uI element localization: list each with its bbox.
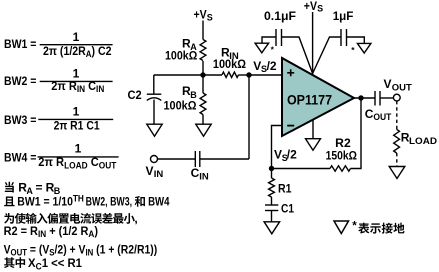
node B junction bbox=[246, 72, 251, 77]
label RLOAD bbox=[401, 131, 438, 147]
ground op-amp V- bbox=[306, 139, 321, 151]
wire op-amp output bbox=[354, 97, 375, 99]
label VOUT bbox=[384, 77, 413, 92]
note line 4 bbox=[4, 224, 98, 239]
svg-text:C1: C1 bbox=[281, 202, 294, 216]
wire 0.1uF to ground bbox=[262, 37, 276, 43]
terminal VOUT bbox=[393, 94, 400, 101]
svg-text:IN: IN bbox=[199, 172, 209, 182]
wire node B down to CIN bbox=[248, 75, 250, 159]
svg-text:1μF: 1μF bbox=[333, 9, 354, 23]
label COUT bbox=[365, 107, 392, 122]
wire node B to op-amp + bbox=[249, 74, 282, 76]
note line 2 bbox=[4, 194, 170, 209]
svg-text:150kΩ: 150kΩ bbox=[326, 148, 358, 162]
resistor RLOAD bbox=[394, 129, 400, 153]
capacitor 0.1uF bbox=[276, 29, 282, 46]
node output junction bbox=[358, 95, 363, 100]
resistor R1 bbox=[269, 178, 275, 197]
wire output to R2 (vertical) bbox=[351, 98, 362, 169]
wire 0.1uF to V+ bbox=[282, 37, 313, 74]
svg-text:LOAD: LOAD bbox=[409, 136, 438, 146]
svg-text:100kΩ: 100kΩ bbox=[165, 49, 198, 63]
footnote text bbox=[352, 221, 404, 234]
capacitor C1 bbox=[265, 205, 278, 211]
terminal VIN bbox=[151, 156, 158, 163]
note line 3 bbox=[4, 212, 138, 226]
formula BW3 bbox=[4, 105, 113, 133]
label VIN bbox=[146, 164, 164, 179]
ground 0.1uF bbox=[255, 43, 269, 53]
resistor RA bbox=[200, 40, 206, 61]
label CIN bbox=[191, 166, 209, 181]
svg-text:,: , bbox=[134, 212, 137, 226]
label RA bbox=[182, 36, 197, 52]
wire 1uF to ground bbox=[347, 37, 365, 43]
label VS/2 bottom bbox=[274, 148, 297, 163]
formula BW2 bbox=[4, 66, 113, 94]
svg-text:S: S bbox=[317, 4, 323, 14]
svg-text:1: 1 bbox=[73, 105, 80, 119]
supply +VS label (left) bbox=[194, 8, 213, 23]
wire op-amp V- to ground bbox=[312, 120, 314, 139]
svg-text:2π (1/2RA) C2: 2π (1/2RA) C2 bbox=[43, 44, 112, 59]
svg-text:BW1 = 1/10: BW1 = 1/10 bbox=[17, 195, 73, 209]
wire R1 to C1 bbox=[271, 197, 273, 205]
svg-text:S: S bbox=[207, 13, 213, 23]
svg-text:BW1 =: BW1 = bbox=[4, 37, 36, 51]
ground below RB bbox=[196, 124, 211, 136]
svg-text:BW4 =: BW4 = bbox=[4, 150, 36, 164]
node A junction bbox=[200, 72, 205, 77]
wire +VS to op-amp V+ bbox=[312, 12, 314, 75]
formula BW4 bbox=[4, 142, 119, 171]
svg-text:BW3 =: BW3 = bbox=[4, 113, 36, 127]
note line 5 bbox=[4, 242, 158, 257]
svg-text:+V: +V bbox=[304, 0, 317, 13]
wire node C to R1 bbox=[271, 169, 273, 179]
wire RB to ground bbox=[202, 115, 204, 125]
svg-text:OUT: OUT bbox=[373, 112, 391, 122]
capacitor CIN bbox=[195, 151, 200, 167]
capacitor C2 bbox=[147, 94, 162, 100]
svg-text:BW2, BW3,: BW2, BW3, bbox=[86, 195, 133, 209]
ground 1uF bbox=[357, 43, 371, 53]
svg-text:BW4: BW4 bbox=[148, 195, 170, 209]
wire RLOAD to ground (dashed) bbox=[396, 153, 398, 167]
formula BW1 bbox=[4, 30, 113, 59]
resistor RIN bbox=[222, 72, 239, 77]
svg-text:XC1 << R1: XC1 << R1 bbox=[28, 256, 82, 271]
capacitor 1uF bbox=[341, 29, 347, 46]
svg-text:0.1μF: 0.1μF bbox=[264, 9, 296, 23]
wire +VS to RA bbox=[202, 21, 204, 40]
svg-text:OP1177: OP1177 bbox=[287, 92, 332, 108]
supply +VS label (top) bbox=[304, 0, 323, 14]
svg-text:*: * bbox=[352, 221, 357, 233]
svg-text:C2: C2 bbox=[128, 88, 142, 102]
wire COUT to VOUT bbox=[380, 97, 393, 99]
svg-text:V: V bbox=[384, 77, 392, 91]
label RB bbox=[182, 84, 197, 100]
svg-text:C: C bbox=[191, 166, 200, 180]
svg-text:IN: IN bbox=[154, 169, 164, 179]
svg-text:/2: /2 bbox=[267, 59, 277, 73]
wire VOUT to RLOAD (dashed) bbox=[396, 101, 398, 129]
wire C1 to ground bbox=[271, 211, 273, 222]
ground below C2 bbox=[147, 124, 162, 136]
svg-text:2π R1 C1: 2π R1 C1 bbox=[54, 119, 100, 133]
ground below C1 bbox=[264, 222, 280, 234]
svg-text:BW2 =: BW2 = bbox=[4, 74, 36, 88]
label VS/2 top bbox=[253, 59, 277, 74]
svg-text:TH: TH bbox=[73, 194, 84, 204]
wire R2 to node C bbox=[272, 168, 331, 170]
wire node A to C2 bbox=[154, 74, 203, 76]
wire C2 to ground bbox=[153, 100, 155, 125]
svg-text:*: * bbox=[351, 45, 355, 55]
svg-text:C: C bbox=[365, 107, 374, 121]
svg-text:R2 = RIN + (1/2 RA): R2 = RIN + (1/2 RA) bbox=[4, 224, 98, 239]
wire CIN to node B leg bbox=[200, 158, 249, 160]
capacitor COUT bbox=[375, 91, 380, 106]
wire 1uF to V+ bbox=[313, 37, 341, 74]
footnote ground symbol bbox=[334, 221, 349, 234]
svg-text:100kΩ: 100kΩ bbox=[213, 57, 246, 71]
svg-text:*: * bbox=[271, 45, 275, 55]
svg-text:/2: /2 bbox=[287, 148, 297, 162]
svg-text:V: V bbox=[253, 59, 261, 73]
resistor RB bbox=[200, 93, 206, 115]
svg-text:OUT: OUT bbox=[392, 82, 413, 92]
wire VIN to CIN bbox=[158, 158, 196, 160]
ground RLOAD bbox=[389, 167, 405, 179]
note line 6 bbox=[4, 256, 82, 271]
wire node C to op-amp - bbox=[272, 126, 283, 169]
wire RA to node A bbox=[202, 61, 204, 93]
resistor R2 bbox=[330, 166, 351, 171]
svg-text:+V: +V bbox=[194, 8, 207, 22]
svg-text:R1: R1 bbox=[278, 182, 292, 196]
node C junction bbox=[269, 166, 274, 171]
wire RIN to node B bbox=[239, 74, 250, 76]
wire C2 top bbox=[153, 75, 155, 94]
label RIN bbox=[221, 46, 239, 62]
svg-text:1: 1 bbox=[73, 30, 80, 44]
svg-text:100kΩ: 100kΩ bbox=[164, 98, 197, 112]
svg-text:V: V bbox=[146, 164, 154, 178]
note line 1 bbox=[5, 181, 61, 196]
op-amp U1 OP1177 bbox=[282, 58, 354, 136]
svg-text:=: = bbox=[36, 181, 43, 195]
svg-text:1: 1 bbox=[75, 142, 82, 156]
wire node A to RIN bbox=[203, 74, 222, 76]
